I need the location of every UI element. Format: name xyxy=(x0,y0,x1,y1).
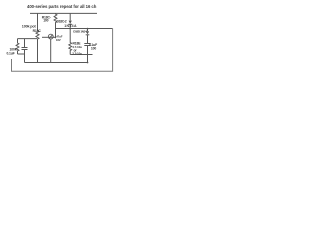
svg-text:1N34A: 1N34A xyxy=(64,24,77,28)
svg-text:D18D 1N34: D18D 1N34 xyxy=(73,30,87,34)
svg-text:100: 100 xyxy=(91,46,96,50)
svg-text:0.1uF: 0.1uF xyxy=(7,52,15,56)
svg-text:100k pot: 100k pot xyxy=(22,24,37,28)
svg-text:R18C: R18C xyxy=(33,29,42,33)
svg-text:100: 100 xyxy=(43,19,48,23)
svg-text:16V: 16V xyxy=(56,38,61,42)
svg-text:400-series parts repeat for al: 400-series parts repeat for all 16 ch xyxy=(27,4,97,9)
svg-text:2.2-10u: 2.2-10u xyxy=(72,52,82,56)
